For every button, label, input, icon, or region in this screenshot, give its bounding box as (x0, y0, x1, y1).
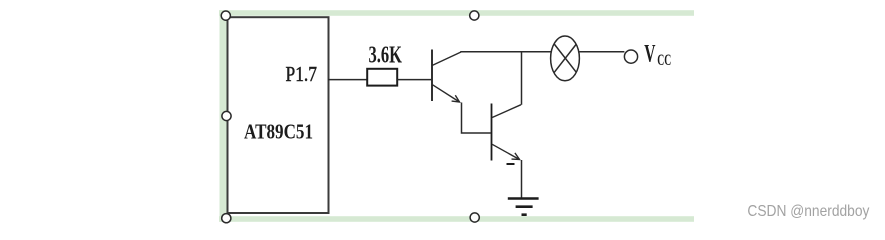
selection handle top-center (470, 11, 479, 20)
label Vcc (644, 40, 671, 68)
resistor R1 body (367, 69, 397, 86)
selection frame left strip (220, 10, 228, 222)
wire lamp to Vcc terminal (579, 51, 624, 53)
selection frame bottom strip (219, 216, 694, 222)
wire top rail Q1 collector to lamp (460, 51, 551, 53)
transistor Q2 base bar (491, 104, 493, 161)
wire resistor R1 to Q1 base (397, 79, 431, 81)
transistor Q1 collector (433, 52, 461, 65)
transistor Q1 emitter with arrow (433, 85, 460, 102)
svg-text:CSDN @nnerddboy: CSDN @nnerddboy (747, 203, 869, 220)
transistor Q2 collector (492, 105, 521, 118)
lamp L1 (551, 36, 580, 81)
wire Q2 emitter to ground (521, 160, 523, 198)
selection frame top strip (219, 10, 694, 16)
transistor Q1 base bar (431, 50, 433, 102)
wire P1.7 to resistor R1 (328, 79, 368, 81)
wire Q2 collector to top rail (521, 52, 523, 105)
svg-text:3.6K: 3.6K (369, 43, 403, 69)
IC U1 box AT89C51 (228, 17, 329, 213)
selection handle top-left (221, 11, 230, 20)
Vcc terminal node (624, 50, 637, 63)
selection handle bottom-center (470, 213, 479, 222)
wire Q1 emitter to Q2 base (462, 103, 491, 134)
svg-text:CC: CC (657, 52, 671, 69)
svg-text:AT89C51: AT89C51 (244, 120, 313, 144)
transistor Q2 emitter with arrow (492, 144, 519, 159)
svg-text:V: V (644, 40, 655, 67)
svg-text:P1.7: P1.7 (286, 62, 318, 86)
ground (508, 199, 539, 215)
selection handle middle-left (222, 111, 231, 120)
selection handle bottom-left (222, 214, 231, 223)
stray dash near Q2 emitter (507, 163, 515, 165)
